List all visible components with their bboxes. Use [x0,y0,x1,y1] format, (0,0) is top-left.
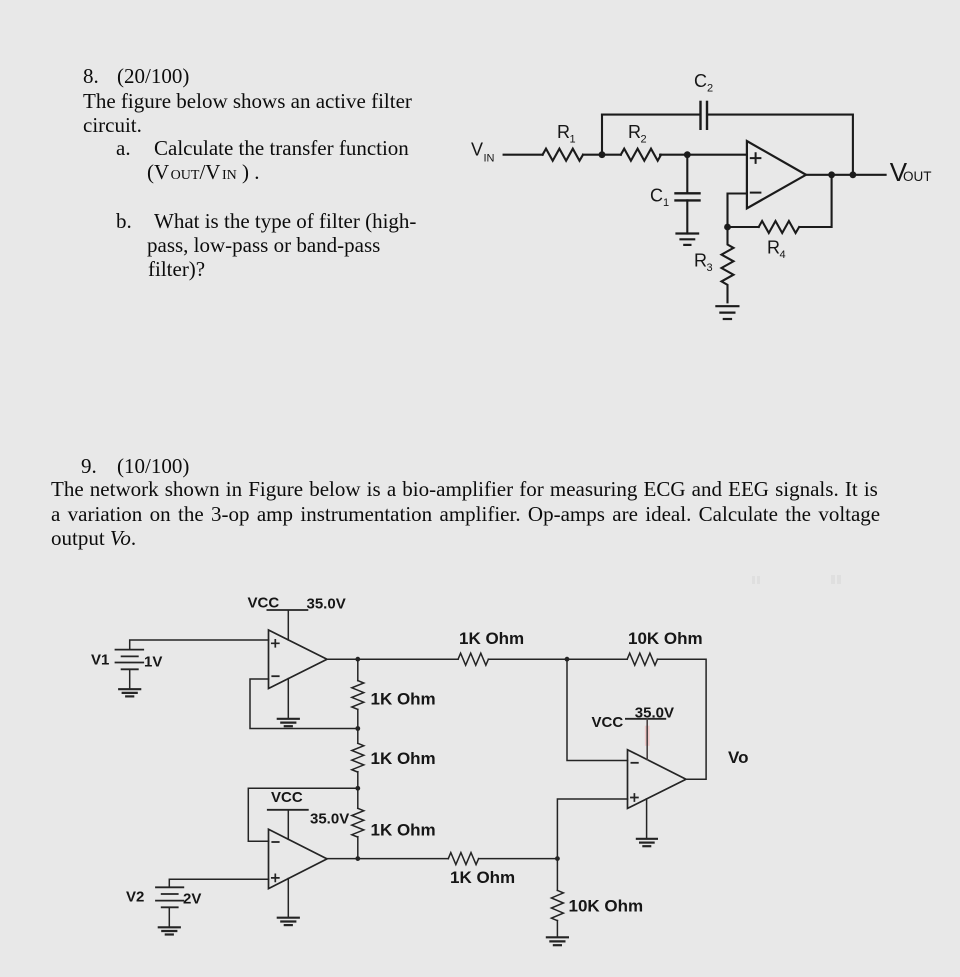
faint watermark mark right [831,575,835,584]
svg-text:10K Ohm: 10K Ohm [569,897,644,916]
label R2 [628,122,647,146]
svg-text:1K Ohm: 1K Ohm [371,690,436,709]
op-amp U1 minus sign [751,192,761,194]
svg-text:1K Ohm: 1K Ohm [371,821,436,840]
wire U3 output [327,858,448,860]
ground below V1 [119,689,140,696]
wire VCC pin U4 red highlight [645,728,650,744]
capacitor C2 [701,102,708,129]
node G [555,856,560,861]
op-amp U3 plus sign [272,874,279,881]
wire R6c to U3 output node [357,837,359,859]
resistor R5 1K [458,653,488,665]
node D [828,171,835,178]
svg-text:R: R [628,122,641,142]
resistor R3 [722,227,734,302]
wire R1 to node A [583,154,621,156]
label R6a 1K Ohm [371,690,436,709]
label R1 [557,122,576,146]
svg-text:3: 3 [707,262,713,274]
wire inverting feedback U2 [250,679,358,729]
wire down from U2 output node [357,659,359,680]
wire VCC underline U2 [267,609,307,611]
node A [599,151,606,158]
label VCC supply U4 [592,714,624,731]
wire VCC pin U4 [646,719,648,760]
node E [850,171,857,178]
svg-text:35.0V: 35.0V [307,596,346,613]
wire VEE pin U3 to ground [287,879,289,918]
wire node A up to feedback [601,115,603,155]
label VCC supply U3 [271,789,303,806]
op-amp U4 minus sign [631,762,637,764]
wire R10 to ground [556,921,558,938]
label VCC supply U2 [248,595,280,612]
resistor R2 [621,149,661,161]
node F [565,657,570,662]
node C [724,224,731,231]
label 1V [144,654,162,671]
svg-text:2V: 2V [183,891,201,908]
resistor R6b 1K [352,743,364,772]
resistor R8 1K [448,853,478,865]
wire node C to R4 [728,226,759,228]
wire VCC pin U2 [287,611,289,640]
resistor R4 [759,221,799,233]
svg-text:R: R [557,122,570,142]
wire inverting input [728,194,747,228]
battery V1 [116,650,144,670]
ground below R10 [547,937,568,945]
ground below C1 [677,234,699,245]
wire node G to noninverting input U4 [557,799,627,859]
label 35.0V supply U2 [307,596,346,613]
label 2V [183,891,201,908]
wire VEE pin U4 to ground [646,799,648,839]
op-amp U3 [269,829,328,888]
wire VCC underline U3 [268,809,308,811]
node U3 output [355,856,360,861]
label 35.0V supply U4 [635,705,674,722]
faint watermark mark left [752,576,755,584]
ground below U3 [278,918,299,925]
svg-text:1K Ohm: 1K Ohm [450,868,515,887]
svg-text:1K Ohm: 1K Ohm [459,629,524,648]
svg-text:V2: V2 [126,889,144,906]
ground below U2 [278,719,299,726]
op-amp U2 minus sign [272,675,278,677]
op-amp U1 [747,141,806,208]
wire R4 to output [800,175,832,227]
svg-text:4: 4 [780,249,786,261]
ground below V2 [159,927,180,934]
svg-text:2: 2 [707,82,713,94]
label Vo [728,748,748,767]
wire VEE pin U2 to ground [287,679,289,719]
wire R6a to node H [357,709,359,743]
svg-text:IN: IN [484,152,495,164]
wire R8 to node G [479,858,558,860]
node B [684,151,691,158]
wire V1 to noninverting input U2 [130,640,269,650]
label 35.0V supply U3 [310,810,349,827]
svg-text:C: C [694,71,707,91]
label R10 10K Ohm [569,897,644,916]
wire V2 to ground [168,907,170,927]
svg-text:OUT: OUT [903,169,932,184]
wire R5 to node F [488,658,627,660]
wire feedback top right segment [708,115,853,175]
capacitor C1 [676,193,700,200]
label R7 10K Ohm [628,629,703,648]
op-amp U1 plus sign [751,153,761,163]
label R6c 1K Ohm [371,821,436,840]
op-amp U3 minus sign [272,841,278,843]
op-amp U4 [628,750,687,809]
wire R2 to op-amp [660,154,747,156]
label VOUT [890,157,932,187]
svg-text:Vo: Vo [728,748,748,767]
svg-text:V: V [471,139,483,159]
label VIN [471,139,495,164]
ground below R3 [716,306,738,319]
svg-text:1K Ohm: 1K Ohm [371,749,436,768]
svg-text:C: C [650,185,663,205]
wire node F down to inverting input U4 [567,659,628,760]
node I [355,786,360,791]
label R8 1K Ohm [450,868,515,887]
resistor R6a 1K [352,681,364,710]
battery V2 [156,887,183,907]
svg-text:VCC: VCC [271,789,303,806]
svg-text:1: 1 [570,133,576,145]
op-amp U2 plus sign [272,640,279,647]
resistor R6c 1K [352,808,364,837]
label C2 [694,71,713,95]
svg-text:35.0V: 35.0V [310,810,349,827]
svg-text:V1: V1 [91,652,109,669]
label C1 [650,185,669,209]
wire VIN input [504,154,543,156]
svg-text:VCC: VCC [592,714,624,731]
op-amp U4 plus sign [631,794,638,801]
wire U2 output [327,658,458,660]
svg-text:R: R [694,251,707,271]
wire inverting feedback U3 [248,788,357,841]
svg-text:1V: 1V [144,654,162,671]
wire node G to R10 [556,859,558,891]
resistor R1 [543,149,583,161]
wire R7 to U4 output [657,659,706,779]
svg-text:R: R [767,238,780,258]
node H [355,726,360,731]
wire VCC pin U3 [287,811,289,840]
svg-text:10K Ohm: 10K Ohm [628,629,703,648]
label R4 [767,238,786,262]
node U2 output [355,657,360,662]
label V1 [91,652,109,669]
wire VCC dash U4 [626,718,665,720]
label R3 [694,251,713,275]
wire V1 to ground [129,669,131,689]
svg-text:2: 2 [641,133,647,145]
label V2 [126,889,144,906]
op-amp U2 [269,630,328,689]
wire V2 to noninverting input U3 [169,879,268,887]
wire output [806,174,886,176]
wire C1 to ground [686,200,688,233]
label R5 1K Ohm [459,629,524,648]
resistor R7 10K [627,653,657,665]
ground below U4 [637,839,657,846]
svg-text:VCC: VCC [248,595,280,612]
wire node B down to C1 [686,155,688,194]
wire feedback top left segment [602,114,699,116]
wire R6b to node I [357,772,359,809]
svg-text:1: 1 [663,197,669,209]
resistor R10 10K [551,890,563,920]
label R6b 1K Ohm [371,749,436,768]
